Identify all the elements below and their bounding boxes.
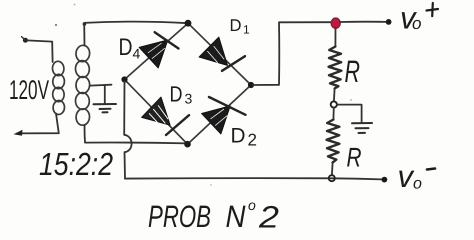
svg-text:D: D — [231, 125, 246, 148]
transformer secondary winding S1 — [75, 45, 90, 126]
resistor R1 — [329, 47, 342, 89]
node divider midpoint — [331, 101, 337, 107]
wire bridge arm bottom-right (B to R) — [188, 85, 252, 144]
svg-text:D: D — [230, 16, 242, 35]
svg-text:2: 2 — [258, 200, 279, 232]
svg-text:120V: 120V — [9, 75, 49, 105]
svg-text:1: 1 — [243, 23, 250, 37]
wire primary bottom lead — [18, 114, 59, 134]
svg-text:15:2:2: 15:2:2 — [39, 146, 113, 182]
svg-text:R: R — [345, 54, 361, 89]
node right vertex — [248, 82, 254, 88]
label V0+ — [400, 1, 438, 36]
wire primary top lead — [51, 42, 53, 62]
diode D3 — [142, 97, 189, 135]
wire bridge arm top-left (L to T) — [125, 23, 189, 79]
svg-text:2: 2 — [248, 131, 257, 150]
svg-text:o: o — [413, 176, 422, 193]
node junction (red) — [331, 18, 340, 28]
diode D4 — [139, 30, 178, 68]
svg-text:D: D — [170, 82, 183, 107]
node top vertex — [185, 20, 192, 27]
wire 120V top terminal to primary — [27, 40, 52, 41]
wire right vertex up to plus rail — [253, 22, 332, 85]
ground (divider midpoint) — [352, 123, 372, 133]
svg-text:N: N — [226, 199, 247, 231]
terminal V0- — [382, 177, 388, 183]
ground (transformer center tap) — [94, 104, 117, 112]
diode D2 — [202, 96, 246, 134]
svg-text:o: o — [248, 197, 256, 213]
node bottom vertex — [184, 141, 191, 148]
resistor R2 — [327, 120, 340, 163]
corner blob secondary top — [83, 22, 87, 26]
transformer primary winding P1 — [52, 61, 65, 115]
label V0- — [398, 159, 436, 194]
svg-text:D: D — [119, 34, 133, 61]
svg-text:3: 3 — [185, 91, 193, 107]
wire R1 to mid node — [333, 89, 336, 102]
wire mid node to ground — [337, 105, 362, 122]
svg-text:v: v — [398, 159, 415, 194]
svg-text:4: 4 — [133, 46, 141, 62]
wire left vertex down with hop over AC wire — [124, 81, 131, 179]
node left vertex — [121, 76, 127, 82]
wire bridge arm bottom-left (L to B) — [125, 80, 188, 145]
wire transformer center tap — [90, 85, 112, 104]
wire red node to resistor R1 — [334, 28, 336, 47]
wire R2 to bottom rail node — [331, 163, 334, 176]
svg-text:o: o — [412, 14, 421, 33]
wire bridge arm top-right (T to R) — [188, 23, 251, 85]
wire mid node to resistor R2 — [332, 108, 334, 120]
wire secondary bottom lead to bridge bottom node — [85, 125, 187, 143]
svg-text:PROB: PROB — [148, 199, 211, 231]
terminal arrow (120V input bottom) — [14, 130, 23, 136]
svg-text:R: R — [347, 143, 362, 173]
node bottom rail — [329, 175, 335, 181]
title PROB N°2 — [148, 197, 279, 235]
wire bottom rail to V0- terminal — [125, 178, 382, 179]
terminal dot (120V input top) — [22, 37, 28, 43]
wire secondary top lead up to bridge top — [84, 22, 188, 46]
terminal V0+ — [386, 19, 392, 25]
diode D1 — [199, 37, 245, 75]
wire red node to V0+ terminal — [340, 21, 386, 23]
